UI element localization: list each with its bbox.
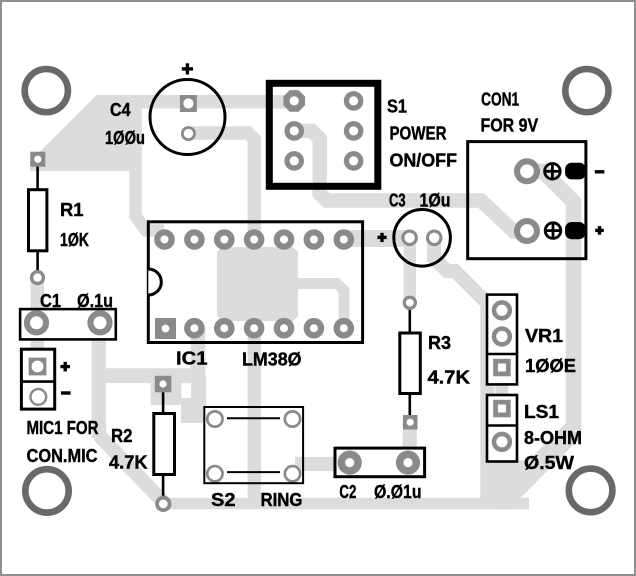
svg-text:VR1: VR1: [525, 325, 563, 346]
svg-text:CON.MIC: CON.MIC: [27, 445, 98, 466]
svg-text:RING: RING: [261, 489, 303, 510]
svg-text:4.7K: 4.7K: [428, 367, 471, 388]
svg-text:Ø.1u: Ø.1u: [77, 290, 113, 311]
svg-text:Ø.Ø1u: Ø.Ø1u: [374, 481, 422, 502]
svg-text:Ø.5W: Ø.5W: [524, 452, 575, 473]
svg-text:MIC1 FOR: MIC1 FOR: [27, 417, 99, 438]
svg-text:IC1: IC1: [176, 348, 208, 369]
svg-text:8-OHM: 8-OHM: [524, 427, 582, 448]
svg-text:1ØØE: 1ØØE: [525, 355, 576, 376]
svg-text:R1: R1: [60, 199, 84, 220]
svg-text:R2: R2: [111, 425, 133, 446]
svg-text:1ØK: 1ØK: [60, 229, 90, 250]
svg-text:FOR 9V: FOR 9V: [481, 114, 539, 135]
svg-text:R3: R3: [428, 332, 451, 353]
svg-text:C4: C4: [110, 99, 131, 120]
svg-text:4.7K: 4.7K: [109, 452, 148, 473]
svg-text:1Øu: 1Øu: [420, 189, 451, 210]
svg-text:LS1: LS1: [524, 401, 559, 422]
svg-text:ON/OFF: ON/OFF: [390, 150, 458, 171]
svg-text:C1: C1: [40, 290, 61, 311]
svg-text:C3: C3: [389, 189, 406, 210]
svg-text:S2: S2: [211, 489, 236, 510]
svg-text:C2: C2: [339, 481, 356, 502]
svg-text:CON1: CON1: [481, 89, 519, 110]
svg-text:1ØØu: 1ØØu: [105, 127, 145, 148]
svg-text:POWER: POWER: [390, 123, 447, 144]
svg-text:LM38Ø: LM38Ø: [242, 349, 302, 370]
svg-text:S1: S1: [387, 96, 407, 117]
